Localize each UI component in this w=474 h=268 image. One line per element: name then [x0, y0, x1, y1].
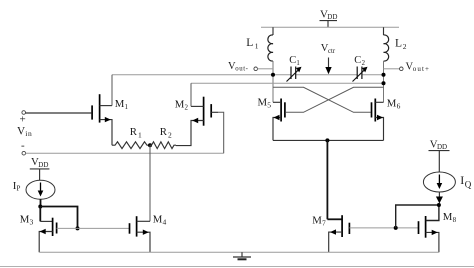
transistor M1	[92, 75, 128, 145]
svg-text:2: 2	[168, 131, 172, 140]
varactor C2	[353, 55, 368, 82]
svg-text:1: 1	[125, 103, 129, 111]
svg-text:2: 2	[403, 42, 407, 51]
svg-text:L: L	[395, 38, 402, 50]
varactor C1	[287, 55, 302, 82]
svg-text:1: 1	[138, 131, 142, 140]
node Vin- terminal	[21, 140, 224, 156]
transistor M7	[312, 140, 349, 252]
svg-text:I: I	[460, 173, 464, 187]
svg-text:C: C	[289, 55, 296, 66]
wire IP to mirror node	[40, 199, 42, 206]
wire M5 M6 source rail	[273, 139, 384, 141]
label Vin	[17, 125, 32, 138]
node dot right tank at M2 wire	[382, 81, 386, 85]
svg-text:DD: DD	[327, 13, 337, 21]
transistor M8	[419, 205, 457, 252]
svg-text:4: 4	[163, 218, 167, 227]
node dot IP	[38, 205, 42, 209]
node dot M3M4 gate	[76, 226, 80, 230]
wire IP node to gate line	[40, 207, 77, 229]
svg-text:DD: DD	[437, 143, 447, 151]
wire varactor line y74.8	[112, 74, 384, 76]
transistor M4	[130, 214, 167, 253]
svg-text:out+: out+	[413, 65, 430, 73]
wire center tap down to M4 drain	[149, 145, 151, 221]
transistor M3	[20, 207, 57, 253]
node dot left tank	[271, 73, 275, 77]
wire M8 diode connection	[396, 205, 439, 228]
label VDD right	[430, 138, 447, 151]
node Vin+ terminal	[20, 111, 92, 126]
node dot right tank	[382, 73, 386, 77]
svg-text:7: 7	[322, 218, 326, 227]
svg-text:in: in	[25, 129, 32, 138]
wire right tank vertical	[383, 61, 385, 102]
current source IP	[13, 180, 55, 200]
wire left tank vertical	[272, 61, 274, 102]
svg-text:ctr: ctr	[328, 48, 336, 55]
svg-text:3: 3	[30, 218, 34, 227]
svg-text:R: R	[160, 126, 168, 138]
node Vout+ terminal	[384, 62, 431, 73]
svg-text:DD: DD	[38, 161, 48, 169]
transistor M6	[372, 97, 401, 140]
transistor M2	[175, 83, 224, 153]
current source IQ	[423, 172, 471, 192]
label Vctr with arrow	[321, 43, 336, 74]
svg-text:5: 5	[267, 101, 271, 110]
svg-text:M: M	[258, 97, 268, 109]
wire M3 M4 gate line	[57, 227, 130, 229]
svg-text:R: R	[130, 126, 138, 138]
resistor R1	[112, 126, 150, 148]
svg-text:2: 2	[362, 60, 366, 67]
node dot pair tail	[325, 138, 329, 142]
svg-text:out-: out-	[235, 65, 248, 72]
label VDD left	[31, 156, 48, 169]
wire cross-couple left-node to M6 gate	[273, 87, 371, 112]
ground	[233, 252, 251, 259]
wire IQ to M8 with arrowhead	[436, 192, 443, 204]
transistor M5	[258, 97, 285, 141]
wire M7 M8 gate line	[349, 227, 418, 229]
svg-text:2: 2	[185, 104, 189, 112]
node dot R center	[148, 143, 152, 147]
svg-text:6: 6	[397, 101, 401, 110]
VDD top bar symbol	[320, 21, 338, 28]
svg-text:C: C	[354, 55, 361, 66]
node Vout- terminal	[228, 61, 273, 72]
svg-text:M: M	[387, 97, 397, 109]
svg-text:Q: Q	[465, 180, 472, 190]
svg-text:+: +	[20, 114, 26, 126]
label VDD top	[320, 9, 337, 22]
svg-text:P: P	[17, 184, 21, 192]
VDD left bar	[30, 169, 50, 180]
svg-text:M: M	[443, 211, 453, 223]
svg-text:M: M	[20, 214, 30, 226]
inductor L1	[246, 27, 273, 61]
svg-text:L: L	[246, 37, 253, 49]
wire bottom rail	[39, 251, 439, 253]
svg-text:M: M	[153, 214, 163, 226]
svg-text:M: M	[312, 214, 322, 226]
wire cross-couple right-node to M5 gate	[286, 87, 384, 112]
svg-text:1: 1	[296, 60, 299, 67]
inductor L2	[384, 27, 407, 61]
svg-text:M: M	[175, 99, 185, 111]
node dot M7M8 gate	[394, 226, 398, 230]
svg-text:M: M	[115, 98, 125, 110]
wire M2 drain long line y83.3	[191, 82, 384, 84]
svg-text:1: 1	[255, 41, 259, 50]
svg-text:8: 8	[453, 216, 457, 224]
border bottom	[0, 266, 474, 268]
resistor R2	[150, 126, 176, 148]
svg-text:-: -	[21, 140, 25, 152]
node dot M8 drain	[437, 203, 441, 207]
VDD right bar	[429, 151, 450, 172]
wire top supply rail	[261, 26, 399, 28]
